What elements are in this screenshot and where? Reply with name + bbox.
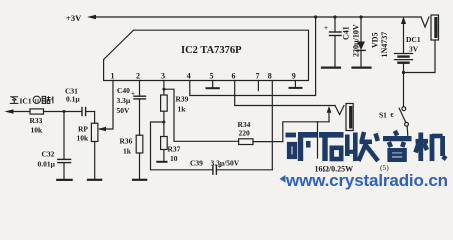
DC jack plug V contact [421, 17, 429, 27]
node battery minus junction [402, 71, 405, 74]
earphone jack V contact [335, 106, 344, 115]
svg-text:7: 7 [256, 72, 260, 81]
svg-text:4: 4 [187, 72, 191, 81]
wire pin3 to R34 [164, 89, 239, 141]
diode VD5 [360, 17, 362, 42]
node input junction [63, 110, 66, 113]
svg-text:0.1µ: 0.1µ [66, 95, 80, 104]
node +3V arrow [87, 15, 96, 19]
resistor R34 [239, 139, 253, 145]
svg-text:10k: 10k [77, 134, 90, 143]
wire to DC jack sleeve [404, 40, 436, 73]
capacitor C39 [212, 166, 214, 175]
node R39/R37 junction [162, 121, 165, 124]
svg-text:C39: C39 [190, 159, 203, 168]
svg-text:R33: R33 [30, 116, 43, 125]
capacitor C31 [81, 108, 83, 116]
pin 1 wire to RP wiper [100, 81, 114, 130]
pin 5 ground [212, 81, 214, 88]
capacitor C40 [134, 95, 146, 97]
pin numbers 1-9 [111, 72, 296, 81]
svg-text:+: + [218, 163, 222, 171]
node rail dot A [314, 15, 317, 18]
earphone plug body [346, 104, 353, 131]
ground under C41 [322, 66, 340, 68]
wire R34 to jack arm [253, 122, 329, 142]
watermark char shi [319, 135, 344, 161]
watermark url [280, 175, 286, 183]
capacitor C32 [63, 112, 65, 160]
svg-text:www.crystalradio.cn: www.crystalradio.cn [285, 171, 448, 190]
pin 4 wire to rail [190, 17, 316, 96]
watermark char shou [346, 132, 379, 161]
wire +3V rail [95, 16, 421, 18]
svg-text:8: 8 [268, 72, 272, 81]
resistor R33 [30, 109, 44, 114]
battery DC1 plates [395, 53, 413, 55]
svg-text:50V: 50V [117, 106, 131, 115]
wire jack sleeve down [317, 122, 319, 158]
capacitor C41 [334, 17, 336, 32]
svg-text:220: 220 [239, 129, 251, 138]
svg-text:9: 9 [292, 72, 296, 81]
pin 3 stub [163, 81, 165, 96]
svg-text:VD5: VD5 [371, 32, 380, 48]
svg-text:C41: C41 [342, 26, 351, 40]
svg-text:DC1: DC1 [406, 35, 421, 44]
svg-text:3.3µ: 3.3µ [117, 96, 131, 105]
svg-text:1N4737: 1N4737 [380, 32, 389, 58]
battery DC1 riser with arrow [403, 20, 405, 54]
svg-text:10k: 10k [31, 126, 44, 135]
svg-text:220µ/10V: 220µ/10V [352, 24, 361, 57]
ground under C32 [57, 179, 71, 181]
pin 9 ground [294, 81, 296, 88]
svg-text:RP: RP [78, 125, 88, 134]
svg-text:S1: S1 [379, 111, 387, 120]
watermark char ji [416, 133, 447, 162]
ground under R37 [157, 161, 166, 163]
svg-text:R36: R36 [120, 137, 133, 146]
potentiometer RP [91, 123, 98, 141]
ground under R36 [133, 179, 146, 181]
svg-text:3.3µ/50V: 3.3µ/50V [211, 159, 240, 168]
svg-text:+: + [131, 90, 135, 98]
wire bus right of C39 [216, 169, 272, 171]
watermark char yin [383, 131, 412, 160]
svg-text:6: 6 [232, 72, 236, 81]
ground under VD5 [353, 66, 371, 68]
pin 6 wire to earphone [235, 81, 335, 106]
jack switch arrow [328, 111, 330, 122]
pin 7 stub [257, 81, 259, 91]
svg-text:0.01µ: 0.01µ [38, 160, 56, 169]
svg-text:11: 11 [34, 98, 39, 104]
svg-text:C40: C40 [117, 86, 130, 95]
svg-text:10: 10 [170, 154, 178, 163]
pin 8 wire to bus [271, 81, 273, 170]
svg-text:R39: R39 [176, 95, 189, 104]
input wire from IC1 [12, 111, 30, 113]
svg-text:5: 5 [210, 72, 214, 81]
svg-text:1k: 1k [178, 105, 187, 114]
watermark char kuang [286, 135, 318, 161]
svg-text:3: 3 [161, 72, 165, 81]
node pin3 junction [162, 88, 165, 91]
op-amp IC2 TA7376P body [104, 30, 309, 80]
wire junction to bottom bus [151, 122, 213, 170]
pin 2 stub [139, 81, 141, 97]
resistor R37 [161, 137, 168, 150]
svg-text:2: 2 [136, 72, 140, 81]
svg-text:1k: 1k [123, 147, 132, 156]
svg-text:+: + [324, 24, 328, 32]
switch S1 [403, 73, 405, 107]
svg-text:C32: C32 [42, 150, 55, 159]
svg-text:1: 1 [111, 72, 115, 81]
resistor R39 [161, 95, 168, 111]
svg-text:R37: R37 [168, 145, 181, 154]
svg-text:IC2 TA7376P: IC2 TA7376P [181, 45, 242, 56]
svg-text:3V: 3V [409, 45, 419, 54]
node input label to IC1 pin 11 [10, 97, 19, 104]
ground under RP [88, 179, 101, 181]
svg-text:IC1: IC1 [20, 97, 32, 106]
DC jack plug body [431, 15, 439, 40]
svg-text:+3V: +3V [66, 13, 82, 23]
resistor R36 [136, 135, 143, 153]
